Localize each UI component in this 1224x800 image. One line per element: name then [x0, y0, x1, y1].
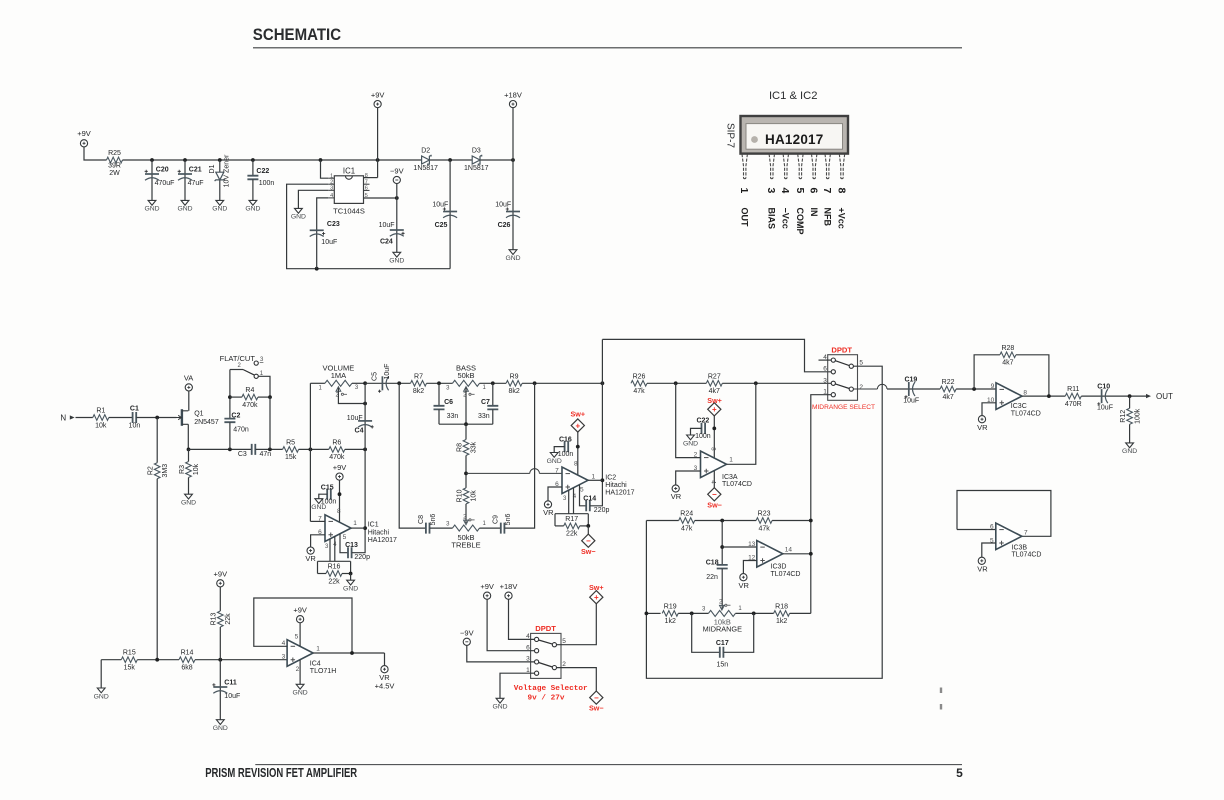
resistor R15	[121, 657, 137, 663]
svg-text:7: 7	[365, 179, 368, 185]
svg-text:2: 2	[859, 384, 863, 391]
capacitor C17	[720, 647, 724, 658]
wire top line to DPDT pin6	[602, 339, 831, 371]
wire source row	[189, 448, 252, 450]
wire selector pin1 to ground	[500, 673, 535, 698]
ground D1	[216, 200, 224, 205]
svg-text:R5: R5	[286, 439, 295, 446]
svg-text:C20: C20	[156, 166, 169, 173]
resistor R4	[242, 394, 258, 400]
wire R16 right lead	[342, 573, 351, 575]
wire C13 to IC1 output vertical	[352, 449, 365, 552]
junction	[754, 381, 758, 385]
ground R16	[347, 580, 355, 585]
junction	[363, 402, 367, 406]
svg-text:Sw+: Sw+	[571, 410, 586, 419]
svg-text:D2: D2	[421, 148, 430, 155]
wire IC1 pin2 to bottom rail	[287, 184, 451, 269]
op-amp IC3D triangle	[757, 541, 783, 568]
ground C16	[550, 453, 558, 458]
wire down to C17	[692, 613, 720, 652]
svg-text:10uF: 10uF	[347, 415, 363, 422]
wire IC1 pin5 to C13	[340, 534, 348, 553]
capacitor C3	[252, 444, 256, 455]
svg-text:IC3B: IC3B	[1012, 544, 1028, 551]
svg-text:470R: 470R	[1065, 401, 1082, 408]
DPDT selector levers	[539, 640, 553, 667]
HA12017 SIP-7 package drawing	[741, 116, 849, 154]
wire R1 to C1	[109, 417, 133, 419]
svg-text:47uF: 47uF	[188, 180, 204, 187]
svg-text:VR: VR	[738, 581, 749, 590]
svg-text:2: 2	[296, 666, 300, 673]
resistor R13	[218, 611, 224, 627]
wire DPDT pin1 down	[811, 395, 831, 614]
junction	[1128, 394, 1132, 398]
svg-text:TL074CD: TL074CD	[771, 571, 801, 578]
svg-text:Voltage Selector: Voltage Selector	[514, 685, 588, 693]
svg-text:TREBLE: TREBLE	[451, 541, 480, 550]
svg-text:8k2: 8k2	[508, 388, 519, 395]
wire DPDT pin4 stub	[819, 359, 832, 361]
IC1 pin stubs and numbers	[328, 178, 369, 198]
wire +18V to selector pin4	[509, 599, 535, 639]
svg-text:C11: C11	[224, 679, 237, 686]
svg-text:+Vcc: +Vcc	[837, 208, 847, 229]
ground C22	[687, 435, 695, 440]
svg-text:39R: 39R	[108, 162, 121, 169]
wire VR to IC3A pin3	[676, 471, 701, 485]
wire switch to C2 top	[229, 370, 231, 419]
wire to C6	[438, 383, 440, 405]
svg-text:OUT: OUT	[739, 208, 749, 228]
wire IC4 feedback	[254, 598, 352, 653]
wire rail to C20 and ground	[151, 160, 153, 200]
svg-text:Sw−: Sw−	[707, 500, 722, 509]
svg-text:220p: 220p	[354, 554, 370, 561]
junction	[183, 158, 187, 162]
net Sw- (selector)	[590, 691, 603, 704]
wire switch pole	[230, 369, 243, 371]
svg-text:3: 3	[330, 186, 333, 192]
svg-text:−9V: −9V	[460, 629, 474, 638]
svg-text:R28: R28	[1001, 345, 1014, 352]
capacitor C7	[487, 406, 498, 410]
scan artifact dashes	[940, 688, 942, 710]
wire R16 right vert	[350, 561, 352, 573]
wire input to R1	[76, 417, 93, 419]
ground C20	[148, 200, 156, 205]
capacitor C15	[327, 489, 331, 500]
svg-text:1N5817: 1N5817	[464, 165, 489, 172]
svg-text:33n: 33n	[447, 413, 459, 420]
wire IC4 output	[313, 652, 384, 654]
junction	[1047, 394, 1051, 398]
svg-text:COMP: COMP	[795, 208, 805, 235]
wire R26 to R27	[647, 382, 706, 384]
wire to R24	[646, 520, 678, 522]
svg-text:+: +	[575, 421, 580, 430]
resistor R5	[283, 447, 299, 453]
ground R3	[185, 494, 193, 499]
capacitor C25	[443, 211, 457, 213]
svg-text:7: 7	[821, 188, 833, 194]
svg-text:GND: GND	[213, 725, 228, 732]
resistor R10	[463, 488, 469, 504]
ground C11	[216, 720, 224, 725]
svg-text:7: 7	[555, 467, 559, 474]
wire IC1 pin4 down	[334, 536, 336, 561]
svg-text:2N5457: 2N5457	[194, 419, 219, 426]
svg-text:IC4: IC4	[310, 660, 321, 667]
wire IC4 pin2 to ground	[299, 660, 301, 684]
wire volume wiper	[338, 388, 365, 404]
svg-text:R23: R23	[758, 511, 771, 518]
wire +9V input to R25	[84, 147, 107, 160]
wire OUT node to R12	[1129, 396, 1131, 408]
wire C16 to ground	[554, 447, 564, 453]
svg-text:MIDRANGE SELECT: MIDRANGE SELECT	[812, 404, 875, 411]
resistor R16	[326, 571, 342, 577]
wire switch throw to R4 right	[258, 376, 270, 397]
wire C17 back up	[724, 613, 754, 652]
wire R19 to MIDRANGE	[678, 612, 708, 614]
wire R14 to IC4 pin3	[195, 659, 287, 661]
wire R27 to DPDT pin3	[722, 382, 831, 384]
wire VR to IC2 pin6	[548, 487, 562, 501]
junction	[268, 395, 272, 399]
capacitor C5	[381, 376, 383, 390]
resistor R12	[1127, 408, 1133, 424]
junction	[350, 651, 354, 655]
wire R15 to R14	[137, 659, 179, 661]
svg-text:C7: C7	[481, 399, 490, 406]
svg-text:R4: R4	[245, 387, 254, 394]
op-amp IC1 triangle	[325, 515, 351, 542]
svg-text:470k: 470k	[242, 402, 258, 409]
wire to IC3B pin6	[957, 529, 996, 531]
wire R17 left lead	[555, 525, 564, 527]
wire R13 to node	[219, 627, 221, 660]
capacitor C11	[213, 686, 227, 688]
wire Sw+ to IC3A pin8	[713, 416, 715, 458]
svg-text:4k7: 4k7	[1002, 360, 1013, 367]
wire source to R3	[188, 449, 190, 461]
svg-text:GND: GND	[343, 586, 358, 593]
net Sw- (IC2)	[582, 534, 595, 547]
wire through C26 to ground	[512, 160, 514, 250]
capacitor C14	[586, 500, 590, 511]
junction	[809, 552, 813, 556]
junction	[150, 158, 154, 162]
wire R4 node down to C3 node	[269, 397, 271, 449]
svg-text:R10: R10	[456, 489, 463, 502]
svg-text:3: 3	[282, 654, 286, 661]
junction	[228, 448, 232, 452]
svg-text:GND: GND	[492, 704, 507, 711]
wire +9V to selector pin6	[487, 599, 534, 650]
svg-text:14: 14	[785, 546, 793, 553]
wire +9V rail to D2	[123, 159, 422, 161]
wire R18 to right vertical	[790, 612, 811, 614]
wire R5 to R6	[299, 448, 329, 450]
wire C18 to MIDRANGE wiper	[721, 569, 723, 609]
svg-text:6k8: 6k8	[181, 665, 192, 672]
terminal +18V selector	[505, 592, 512, 599]
junction	[218, 158, 222, 162]
svg-text:Q1: Q1	[194, 411, 203, 418]
junction	[228, 395, 232, 399]
svg-text:R27: R27	[708, 373, 721, 380]
svg-text:5n6: 5n6	[505, 514, 512, 526]
svg-text:R22: R22	[942, 379, 955, 386]
wire R3 to ground	[188, 478, 190, 495]
junction	[309, 448, 313, 452]
junction	[315, 267, 319, 271]
svg-text:22n: 22n	[706, 574, 718, 581]
resistor R22	[940, 386, 956, 392]
terminal VA	[185, 384, 192, 391]
svg-text:R1: R1	[96, 408, 105, 415]
svg-text:HA12017: HA12017	[368, 537, 397, 544]
svg-text:HA12017: HA12017	[605, 490, 634, 497]
svg-text:10uF: 10uF	[903, 397, 919, 404]
svg-text:C16: C16	[559, 437, 572, 444]
wire C1 to Q1 gate	[136, 417, 176, 419]
wire rail to C21 and ground	[184, 160, 186, 200]
svg-text:220p: 220p	[594, 507, 610, 514]
wire volume node through C4	[364, 383, 366, 449]
svg-text:MIDRANGE: MIDRANGE	[703, 625, 742, 634]
svg-text:+9V: +9V	[77, 129, 91, 138]
junction	[155, 658, 159, 662]
capacitor C20	[145, 173, 159, 175]
svg-text:10uF: 10uF	[1097, 405, 1113, 412]
svg-text:GND: GND	[311, 504, 326, 511]
DPDT selector contacts	[535, 637, 557, 675]
svg-text:VR: VR	[977, 565, 988, 574]
svg-text:Sw+: Sw+	[707, 396, 722, 405]
svg-text:R8: R8	[456, 443, 463, 452]
wire IC1 pin3 to ground	[298, 190, 328, 208]
svg-text:4: 4	[330, 193, 333, 199]
net Sw+ (IC2)	[571, 419, 584, 432]
junction	[349, 572, 353, 576]
junction	[690, 612, 694, 616]
junction	[752, 612, 756, 616]
svg-text:7: 7	[1024, 530, 1028, 537]
svg-text:R18: R18	[775, 603, 788, 610]
wire D3 to +18V node	[481, 159, 514, 161]
svg-text:VR: VR	[671, 492, 682, 501]
node OUT	[1146, 394, 1151, 398]
svg-text:C22: C22	[256, 168, 269, 175]
wire IC3D output	[783, 553, 811, 555]
svg-text:GND: GND	[293, 690, 308, 697]
ground C21	[181, 200, 189, 205]
svg-text:IC1 & IC2: IC1 & IC2	[769, 90, 818, 102]
wire node through C5 to R7	[365, 382, 410, 384]
svg-text:VR: VR	[543, 508, 554, 517]
svg-text:5: 5	[956, 766, 963, 780]
junction	[972, 387, 976, 391]
potentiometer TREBLE 50kB	[453, 525, 480, 531]
wire +18V down	[512, 108, 514, 160]
diode D2 1N5817	[422, 156, 430, 164]
wire R16 left lead	[318, 573, 327, 575]
svg-text:C25: C25	[435, 222, 448, 229]
resistor R27	[706, 381, 722, 387]
ground R12	[1126, 443, 1134, 448]
svg-text:6: 6	[365, 186, 368, 192]
HA12017 pin labels	[739, 208, 846, 235]
op-amp IC2 triangle	[562, 467, 588, 494]
svg-text:TLO71H: TLO71H	[310, 668, 336, 675]
terminal -9V selector	[463, 638, 470, 645]
svg-text:6: 6	[990, 523, 994, 530]
ground IC4	[296, 684, 304, 689]
resistor R14	[179, 657, 195, 663]
wire TREBLE to C9	[480, 527, 501, 529]
wire volume terminal 3	[352, 382, 365, 384]
wire up to R28	[974, 355, 1000, 389]
svg-text:Sw−: Sw−	[581, 547, 596, 556]
terminal +9V psu	[374, 101, 381, 108]
svg-text:100k: 100k	[1134, 408, 1141, 424]
junction	[576, 445, 580, 449]
resistor R17	[564, 523, 580, 529]
junction	[319, 158, 323, 162]
resistor R25	[107, 157, 123, 163]
svg-text:10uF: 10uF	[495, 201, 511, 208]
transistor Q1 2N5457	[177, 409, 189, 426]
wire volume node down to IC1 pin7	[309, 383, 311, 521]
svg-text:R24: R24	[680, 511, 693, 518]
resistor R1	[93, 415, 109, 421]
junction	[645, 612, 649, 616]
terminal +18V	[509, 101, 516, 108]
svg-text:GND: GND	[181, 500, 196, 507]
wire R4 left lead	[230, 396, 242, 398]
svg-text:4k7: 4k7	[709, 388, 720, 395]
junction	[376, 158, 380, 162]
junction	[464, 472, 468, 476]
svg-text:1k2: 1k2	[776, 618, 787, 625]
wire R22 to IC3C pin9	[956, 388, 996, 390]
junction	[251, 158, 255, 162]
svg-text:R13: R13	[211, 612, 218, 625]
wire R16 left vert	[317, 561, 319, 573]
svg-text:−: −	[594, 693, 599, 702]
capacitor C16	[565, 441, 569, 452]
svg-text:N: N	[60, 413, 66, 422]
svg-text:2: 2	[330, 179, 333, 185]
svg-text:C2: C2	[231, 412, 240, 419]
wire D1 to ground	[219, 180, 221, 200]
wire rail to R8	[465, 424, 467, 439]
wire -9V terminal down	[396, 184, 398, 198]
capacitor C4	[358, 420, 372, 422]
svg-text:50kB: 50kB	[457, 371, 474, 380]
wire to IC1 pin 7	[310, 520, 325, 522]
wire R28 to output	[1016, 355, 1049, 396]
svg-text:C17: C17	[716, 640, 729, 647]
wire R8 to R10	[465, 456, 467, 488]
svg-text:13: 13	[748, 541, 756, 548]
svg-text:−: −	[586, 537, 591, 546]
svg-text:4: 4	[779, 188, 791, 194]
svg-text:C8: C8	[418, 515, 425, 524]
HA12017 pin numbers	[738, 188, 847, 194]
svg-text:GND: GND	[547, 458, 562, 465]
wire +9V to R13	[219, 587, 221, 611]
svg-text:9v / 27v: 9v / 27v	[528, 694, 565, 702]
wire VR to IC3C pin10	[982, 403, 996, 416]
svg-text:VR: VR	[977, 423, 988, 432]
wire rail to D1	[219, 160, 221, 172]
wire C14 to IC2 output vertical up to top line	[590, 339, 602, 505]
svg-text:1: 1	[729, 457, 733, 464]
wire R7 to BASS	[427, 382, 453, 384]
diode D3 1N5817	[472, 156, 480, 164]
svg-text:TC1044S: TC1044S	[333, 206, 365, 215]
wire R6 to output node	[345, 448, 365, 450]
svg-text:HA12017: HA12017	[765, 132, 823, 147]
resistor R18	[774, 611, 790, 617]
wire D2 to D3	[430, 159, 472, 161]
svg-text:GND: GND	[212, 206, 227, 213]
svg-text:47k: 47k	[681, 525, 693, 532]
wire +9V to IC1 pin8	[339, 480, 341, 522]
svg-text:+18V: +18V	[500, 582, 518, 591]
svg-text:VA: VA	[184, 374, 193, 383]
svg-text:10uF: 10uF	[224, 693, 240, 700]
svg-text:+: +	[594, 593, 599, 602]
svg-text:5: 5	[580, 487, 584, 494]
wire +9V down	[377, 108, 379, 178]
wire output to VR terminal	[384, 653, 386, 666]
resistor R9	[506, 381, 522, 387]
junction	[674, 381, 678, 385]
junction	[511, 158, 515, 162]
svg-text:R26: R26	[633, 373, 646, 380]
wire VR to IC1 pin 6	[311, 535, 325, 547]
capacitor C19	[908, 382, 910, 396]
svg-text:1N5817: 1N5817	[413, 165, 438, 172]
terminal VR IC3B	[978, 557, 985, 564]
terminal VR IC3D	[740, 574, 747, 581]
wire IC3B feedback loop	[957, 491, 1051, 537]
svg-text:NFB: NFB	[822, 208, 832, 227]
junction	[395, 196, 399, 200]
wire to IC3D pin13	[722, 546, 757, 548]
svg-text:22k: 22k	[225, 613, 232, 625]
svg-text:R14: R14	[181, 650, 194, 657]
resistor R23	[756, 518, 772, 524]
junction	[809, 519, 813, 523]
wire node down to C8	[399, 383, 426, 528]
potentiometer MIDRANGE 10kB	[708, 610, 735, 616]
svg-text:IC1: IC1	[368, 522, 379, 529]
wire R9 to R26	[522, 382, 602, 384]
diode D1 10V zener	[216, 172, 224, 180]
svg-text:10k: 10k	[95, 422, 107, 429]
junction	[268, 448, 272, 452]
title underline	[253, 47, 962, 49]
wire C6 C7 rail	[439, 423, 493, 425]
svg-text:GND: GND	[1122, 448, 1137, 455]
svg-text:GND: GND	[144, 206, 159, 213]
